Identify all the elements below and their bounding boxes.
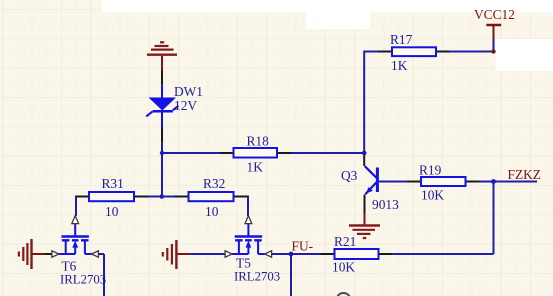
zener diode DW1 (146, 84, 203, 128)
svg-text:IRL2703: IRL2703 (234, 270, 280, 284)
wire R18 row right (291, 152, 364, 154)
resistor R18 (234, 134, 278, 175)
svg-text:1K: 1K (391, 58, 408, 73)
wire vertical FZKZ junction down to R21 row (493, 182, 495, 255)
svg-text:10K: 10K (332, 260, 355, 275)
pin R18 left (220, 152, 234, 154)
svg-text:R18: R18 (247, 134, 270, 149)
ground left of T5 (163, 240, 191, 269)
svg-text:FU-: FU- (292, 239, 314, 254)
pin R32 right (234, 196, 248, 198)
ground left of T6 (19, 239, 45, 269)
wire R21 right to corner (393, 253, 494, 255)
pin R21 left (321, 253, 335, 255)
wire Q3 base to R19 (379, 181, 407, 183)
svg-text:DW1: DW1 (174, 84, 203, 99)
net label FU- (292, 239, 314, 254)
svg-text:R32: R32 (203, 176, 225, 191)
svg-text:R21: R21 (334, 234, 356, 249)
pin R19 left (407, 181, 421, 183)
svg-text:10K: 10K (421, 188, 444, 203)
pin R17 right (436, 51, 450, 53)
svg-text:R17: R17 (390, 32, 413, 47)
mosfet T6 (52, 216, 106, 287)
resistor R17 (390, 32, 436, 73)
resistor R21 (332, 234, 379, 275)
pin T6 drain left (45, 253, 52, 255)
wire R18 row left (162, 152, 220, 154)
ground top (above DW1) (147, 42, 177, 70)
wire vertical from R17 corner down to R18 row (363, 51, 365, 154)
partial circle bottom (337, 293, 351, 296)
pin R17 left (378, 51, 392, 53)
svg-text:1K: 1K (247, 160, 264, 175)
wire DW1 cathode down to junction (161, 111, 163, 153)
wire FU- junction to R21 left (291, 253, 321, 255)
transistor Q3 (341, 166, 399, 212)
svg-text:9013: 9013 (372, 197, 399, 212)
pin R32 left (175, 196, 189, 198)
net label FZKZ (508, 167, 541, 182)
svg-text:VCC12: VCC12 (474, 7, 515, 22)
wire T5 ground to T5 drain (190, 253, 225, 255)
node junction FU- (289, 252, 294, 257)
wire VCC stem lower part (493, 40, 495, 52)
wire vertical junction to R31 R32 row (161, 153, 163, 197)
svg-text:12V: 12V (174, 98, 197, 113)
pin Q3 collector (363, 153, 365, 166)
pin R31 left (76, 196, 89, 198)
wire T6 corner down to edge (103, 254, 105, 296)
mosfet T5 (225, 216, 280, 284)
wire FU- junction down to edge (290, 254, 292, 296)
wire T5 source to FU- junction (272, 253, 291, 255)
resistor R32 (189, 176, 234, 219)
wire R19 right to FZKZ (480, 181, 538, 183)
pin R31 right (134, 196, 148, 198)
pin DW1 top (161, 71, 163, 85)
pin Q3 emitter (364, 195, 366, 214)
node junction FZKZ R19 R21 (491, 179, 496, 184)
pin DW1 bottom (161, 128, 163, 142)
node junction R31 R32 (160, 194, 165, 199)
wire R17 right to VCC junction (450, 51, 494, 53)
wire R32 corner down to T5 gate arrow (247, 196, 249, 217)
resistor R19 (419, 163, 466, 203)
svg-text:R19: R19 (419, 163, 442, 178)
svg-text:10: 10 (205, 204, 219, 219)
wire R31 corner down to T6 gate arrow (75, 196, 77, 217)
svg-text:R31: R31 (102, 176, 124, 191)
power port VCC12 (474, 7, 515, 54)
node junction DW1 R18 row (160, 151, 164, 155)
svg-text:Q3: Q3 (341, 168, 358, 183)
pin R18 right (277, 152, 291, 154)
pin R19 right (466, 181, 480, 183)
svg-text:10: 10 (105, 204, 119, 219)
svg-text:IRL2703: IRL2703 (60, 273, 106, 287)
wire T6 source to corner (98, 253, 104, 255)
wire between R31 and R32 (148, 196, 175, 198)
ground below Q3 (349, 213, 380, 238)
pin R21 right (379, 253, 393, 255)
svg-text:T5: T5 (236, 256, 251, 271)
svg-text:FZKZ: FZKZ (508, 167, 541, 182)
node junction R17 R18 Q3 (362, 151, 367, 156)
resistor R31 (89, 176, 134, 219)
svg-text:T6: T6 (62, 259, 77, 274)
wire R17 left to corner (365, 51, 378, 53)
